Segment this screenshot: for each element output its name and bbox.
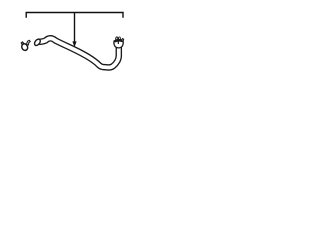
right clamp right nub bbox=[122, 39, 124, 42]
left clamp ring bbox=[21, 43, 29, 52]
leader line bbox=[74, 13, 76, 43]
hose body (white inner) bbox=[39, 38, 119, 67]
right clamp crown white slits bbox=[116, 37, 117, 39]
left clamp ear (top-right) bbox=[26, 40, 30, 45]
right clamp body bbox=[114, 40, 123, 48]
arrowhead bbox=[72, 41, 76, 47]
right clamp inner band bbox=[115, 40, 123, 43]
hose left opening (end cap ellipse) bbox=[33, 38, 41, 47]
left clamp ear (top-left) bbox=[21, 42, 23, 44]
right clamp inner tick bbox=[117, 40, 119, 44]
dimension bracket bbox=[26, 13, 123, 18]
hose body (black outer) bbox=[39, 38, 119, 67]
right clamp crown (dark mass) bbox=[115, 36, 121, 40]
